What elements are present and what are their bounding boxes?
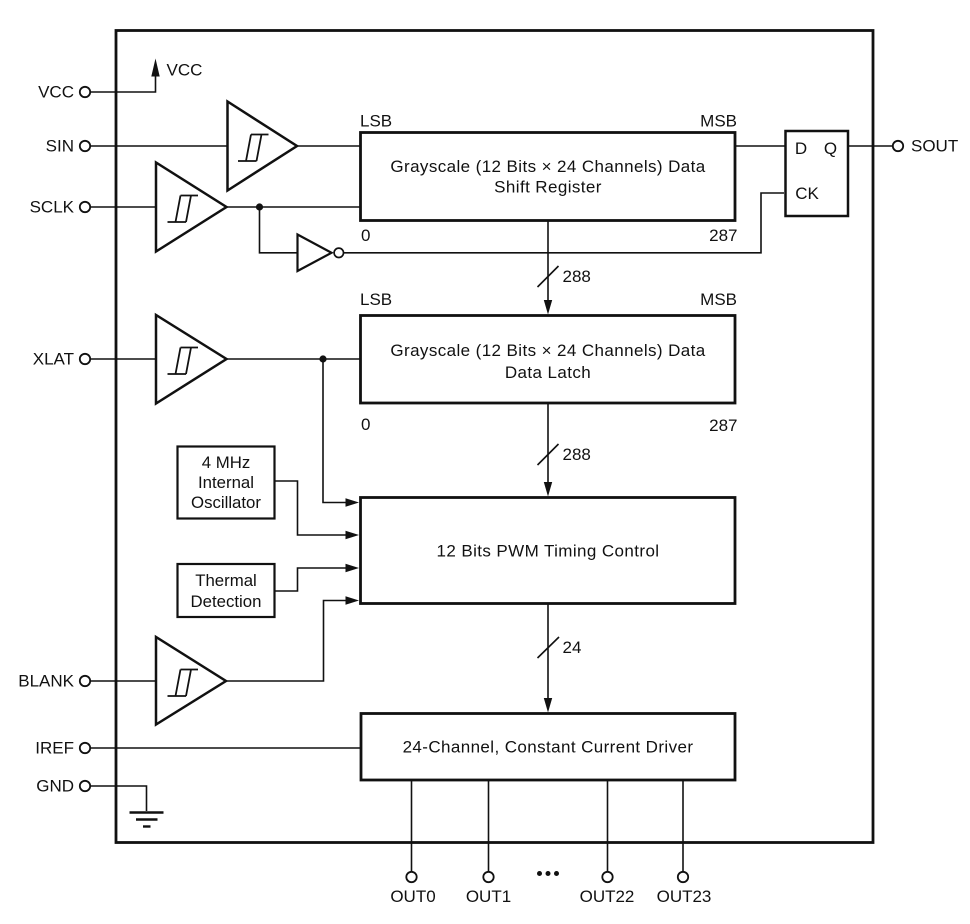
terminal SCLK	[80, 202, 90, 212]
svg-text:0: 0	[361, 415, 370, 434]
svg-text:0: 0	[361, 226, 370, 245]
svg-text:IREF: IREF	[35, 739, 74, 758]
svg-text:Detection: Detection	[191, 592, 262, 611]
wire VCC pin to rail	[90, 76, 156, 92]
wire U5 output to data latch	[227, 358, 362, 360]
wire SCLK pin to buffer	[90, 206, 156, 208]
svg-text:4 MHz: 4 MHz	[202, 453, 250, 472]
chip boundary	[116, 31, 873, 843]
svg-text:Shift Register: Shift Register	[494, 178, 602, 197]
wire U2 output to shift register	[227, 206, 362, 208]
wire OUT23	[682, 780, 684, 872]
wire OUT1	[488, 780, 490, 872]
terminal SIN	[80, 141, 90, 151]
terminal GND	[80, 781, 90, 791]
svg-text:LSB: LSB	[360, 290, 392, 309]
shift register block	[361, 133, 736, 221]
svg-text:BLANK: BLANK	[18, 672, 74, 691]
svg-text:Oscillator: Oscillator	[191, 493, 261, 512]
svg-text:OUT23: OUT23	[657, 887, 712, 906]
bus width slash (288 lower)	[538, 444, 559, 465]
oscillator block	[178, 447, 275, 519]
svg-text:Grayscale (12 Bits × 24 Channe: Grayscale (12 Bits × 24 Channels) Data	[390, 157, 705, 176]
svg-text:288: 288	[563, 267, 591, 286]
schmitt buffer U5 (XLAT)	[156, 315, 227, 404]
svg-text:12 Bits PWM Timing Control: 12 Bits PWM Timing Control	[437, 542, 660, 561]
svg-text:GND: GND	[36, 777, 74, 796]
bus shift register to data latch	[544, 220, 552, 315]
wire U1 output to shift register	[297, 145, 361, 147]
svg-text:OUT1: OUT1	[466, 887, 511, 906]
ellipsis dots	[537, 871, 559, 876]
wire thermal detection to PWM control	[275, 568, 346, 591]
thermal detection block	[178, 564, 275, 617]
arrow oscillator into PWM control	[346, 531, 360, 539]
svg-text:LSB: LSB	[360, 112, 392, 131]
svg-text:24-Channel, Constant Current D: 24-Channel, Constant Current Driver	[403, 738, 694, 757]
wire OUT0	[411, 780, 413, 872]
svg-text:VCC: VCC	[38, 83, 74, 102]
schmitt buffer U6 (BLANK)	[156, 637, 226, 725]
svg-text:SIN: SIN	[46, 137, 74, 156]
wire oscillator to PWM control	[275, 481, 346, 535]
VCC power arrow	[151, 59, 159, 77]
bus width slash (288)	[538, 266, 559, 287]
svg-text:SCLK: SCLK	[30, 198, 75, 217]
junction SCLK node	[256, 203, 263, 210]
terminal VCC	[80, 87, 90, 97]
terminal OUT0	[406, 872, 416, 882]
wire GND pin to ground	[90, 786, 147, 811]
svg-text:XLAT: XLAT	[33, 350, 74, 369]
data latch block	[361, 316, 736, 404]
arrow XLAT into PWM control	[346, 498, 360, 506]
wire OUT22	[607, 780, 609, 872]
wire U6 output to PWM control	[226, 601, 346, 682]
wire SIN pin to buffer	[90, 145, 227, 147]
arrow thermal into PWM control	[346, 564, 360, 572]
svg-text:287: 287	[709, 226, 737, 245]
svg-text:OUT22: OUT22	[580, 887, 635, 906]
svg-text:MSB: MSB	[700, 290, 737, 309]
svg-text:24: 24	[563, 638, 582, 657]
svg-text:287: 287	[709, 416, 737, 435]
wire Q to SOUT	[848, 145, 893, 147]
terminal OUT1	[483, 872, 493, 882]
junction XLAT node	[319, 355, 326, 362]
svg-text:Data Latch: Data Latch	[505, 363, 591, 382]
ground	[130, 813, 164, 827]
wire shift register to flip-flop D	[735, 145, 785, 147]
arrow BLANK into PWM control	[346, 596, 360, 604]
svg-text:OUT0: OUT0	[390, 887, 435, 906]
terminal OUT23	[678, 872, 688, 882]
inverter U3	[298, 235, 344, 272]
bus PWM control to current driver	[544, 604, 552, 713]
svg-text:Q: Q	[824, 139, 837, 158]
bus data latch to PWM control	[544, 403, 552, 497]
svg-text:Internal: Internal	[198, 473, 254, 492]
wire IREF pin to current driver	[90, 747, 361, 749]
terminal OUT22	[602, 872, 612, 882]
terminal IREF	[80, 743, 90, 753]
wire XLAT pin to buffer	[90, 358, 156, 360]
svg-text:Grayscale (12 Bits × 24 Channe: Grayscale (12 Bits × 24 Channels) Data	[390, 341, 705, 360]
terminal XLAT	[80, 354, 90, 364]
bus width slash (24)	[538, 637, 560, 658]
schmitt buffer U2 (SCLK)	[156, 163, 227, 252]
terminal SOUT	[893, 141, 903, 151]
terminal BLANK	[80, 676, 90, 686]
svg-text:288: 288	[563, 445, 591, 464]
svg-text:SOUT: SOUT	[911, 137, 958, 156]
schmitt buffer U1 (SIN)	[228, 102, 298, 191]
wire inverter output to flip-flop CK	[344, 193, 785, 253]
svg-text:Thermal: Thermal	[195, 571, 257, 590]
svg-text:MSB: MSB	[700, 112, 737, 131]
current driver block	[361, 714, 735, 781]
wire XLAT node to PWM control	[323, 359, 346, 503]
svg-text:VCC: VCC	[167, 61, 203, 80]
flip-flop U4	[786, 131, 849, 216]
wire SCLK node to inverter	[260, 207, 298, 253]
svg-text:CK: CK	[795, 184, 819, 203]
svg-text:D: D	[795, 139, 807, 158]
wire BLANK pin to buffer	[90, 680, 156, 682]
PWM timing control block	[361, 498, 736, 604]
